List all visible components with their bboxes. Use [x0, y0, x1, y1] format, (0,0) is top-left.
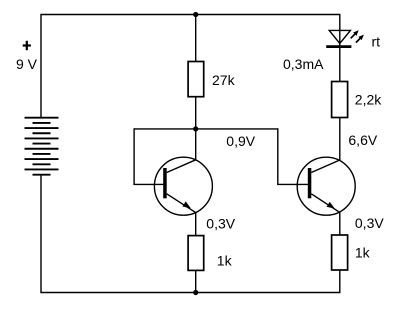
LED D1 [326, 30, 351, 46]
wire from node down to Q2 base [278, 128, 308, 184]
LED light arrow 2 [356, 35, 364, 43]
svg-text:0,3mA: 0,3mA [283, 56, 324, 72]
wire from battery - terminal down and along bottom to R4 [41, 175, 340, 293]
transistor Q1 [154, 157, 212, 215]
resistor R2 1k body [188, 236, 204, 271]
svg-text:1k: 1k [217, 253, 233, 269]
resistor R1 27k body [188, 62, 204, 97]
wire 0,9V node horizontal rail [134, 128, 278, 130]
junction dot 0,9V node [193, 126, 198, 131]
wire Q1 collector up to 0,9V node [195, 129, 197, 160]
svg-text:1k: 1k [355, 244, 371, 260]
wire feedback from node down to Q1 base [134, 128, 163, 184]
LED light arrow 1 [351, 30, 359, 38]
resistor R4 1k body [332, 235, 348, 270]
transistor Q2 [297, 157, 355, 215]
wire top node down to resistor R1 [195, 15, 197, 62]
svg-text:6,6V: 6,6V [348, 132, 377, 148]
wire R2 bottom to bottom rail [195, 270, 197, 292]
svg-text:0,9V: 0,9V [226, 133, 255, 149]
svg-text:27k: 27k [212, 72, 236, 88]
wire Q1 emitter down to resistor R2 [195, 213, 197, 236]
battery BT1 9V cell stack [25, 118, 59, 175]
wire Q2 emitter down to resistor R4 [339, 212, 341, 235]
svg-text:rt: rt [372, 34, 381, 50]
wire R3 bottom to Q2 collector [339, 118, 341, 161]
wire from battery + terminal up, across top, down to LED anode [41, 15, 340, 119]
svg-text:0,3V: 0,3V [206, 215, 235, 231]
wire R1 bottom to 0,9V node [195, 97, 197, 129]
resistor R3 2,2k body [332, 82, 348, 118]
wire LED cathode down to resistor R3 [339, 47, 341, 82]
svg-text:9 V: 9 V [16, 56, 38, 72]
svg-text:2,2k: 2,2k [355, 92, 382, 108]
junction dot bottom node [193, 290, 198, 295]
label + (battery polarity) [23, 41, 31, 50]
svg-text:0,3V: 0,3V [355, 215, 384, 231]
junction node dot at top of R1 [193, 12, 198, 17]
